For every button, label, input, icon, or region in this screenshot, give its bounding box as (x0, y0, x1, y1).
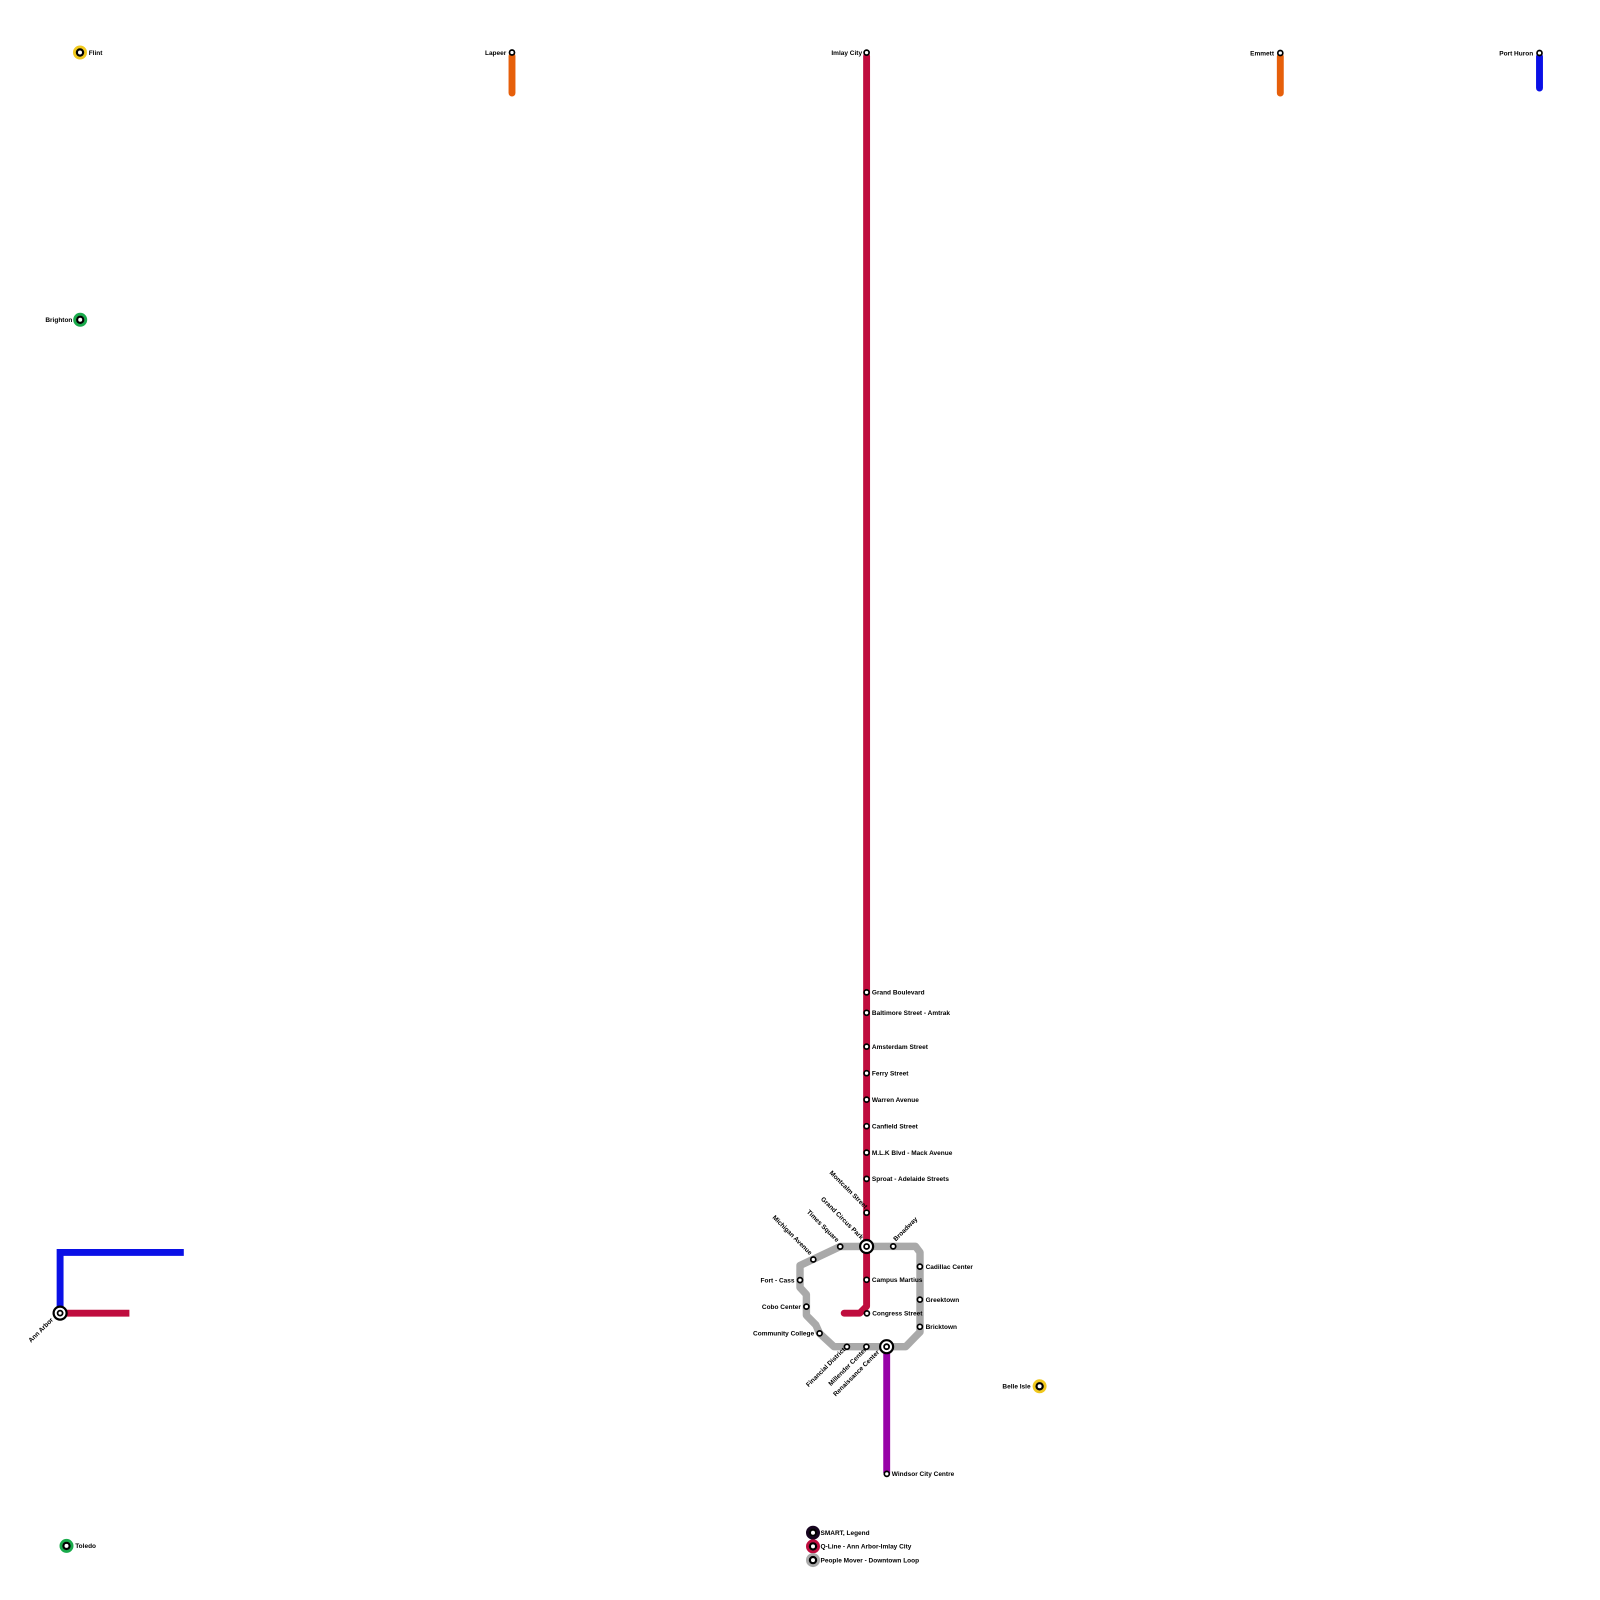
svg-text:Imlay City: Imlay City (831, 50, 862, 57)
station Bricktown (917, 1324, 922, 1329)
interchange Ann Arbor (54, 1307, 67, 1320)
svg-text:Sproat - Adelaide Streets: Sproat - Adelaide Streets (872, 1176, 949, 1183)
svg-text:Bricktown: Bricktown (926, 1324, 957, 1331)
svg-text:Cadillac Center: Cadillac Center (926, 1264, 974, 1271)
station Times Square (838, 1244, 843, 1249)
station Cadillac Center (917, 1264, 922, 1269)
station Greektown (917, 1297, 922, 1302)
svg-text:Amsterdam Street: Amsterdam Street (872, 1044, 929, 1051)
svg-text:Brighton: Brighton (45, 317, 72, 324)
interchange Grand Circus Park (860, 1240, 873, 1253)
station Ferry Street (864, 1071, 869, 1076)
station Port Huron (1537, 51, 1542, 56)
interchange Renaissance Center (880, 1340, 893, 1353)
svg-text:Congress Street: Congress Street (872, 1311, 923, 1318)
station Community College (817, 1331, 822, 1336)
svg-text:Campus Martius: Campus Martius (872, 1277, 923, 1284)
svg-text:People Mover - Downtown Loop: People Mover - Downtown Loop (821, 1557, 920, 1564)
station Amsterdam Street (864, 1044, 869, 1049)
station Baltimore Street - Amtrak (864, 1010, 869, 1015)
svg-text:M.L.K Blvd - Mack Avenue: M.L.K Blvd - Mack Avenue (872, 1150, 953, 1157)
station Sproat - Adelaide Streets (864, 1176, 869, 1181)
station Emmett (1278, 51, 1283, 56)
People Mover downtown loop (800, 1246, 920, 1346)
terminal Belle Isle (yellow ring) (1034, 1381, 1045, 1392)
station Windsor City Centre (884, 1471, 889, 1476)
svg-text:Community College: Community College (753, 1331, 814, 1338)
station Millender Center (864, 1344, 869, 1349)
legend marker People Mover (gray ring) (808, 1555, 819, 1566)
station Congress Street (864, 1311, 869, 1316)
svg-text:Lapeer: Lapeer (485, 50, 507, 57)
station Campus Martius (864, 1277, 869, 1282)
station Imlay City (864, 50, 869, 55)
station Warren Avenue (864, 1097, 869, 1102)
svg-text:Emmett: Emmett (1250, 50, 1275, 57)
svg-text:Q-Line - Ann Arbor-Imlay City: Q-Line - Ann Arbor-Imlay City (821, 1544, 912, 1551)
station Broadway (891, 1244, 896, 1249)
station MLK Blvd - Mack Avenue (864, 1150, 869, 1155)
station Financial District (844, 1344, 849, 1349)
svg-text:Canfield Street: Canfield Street (872, 1124, 919, 1131)
svg-text:Ferry Street: Ferry Street (872, 1071, 909, 1078)
svg-text:Baltimore Street - Amtrak: Baltimore Street - Amtrak (872, 1010, 951, 1017)
svg-text:Grand Boulevard: Grand Boulevard (872, 990, 925, 997)
svg-text:Greektown: Greektown (926, 1297, 960, 1304)
Port Huron blue stub line (1536, 57, 1543, 89)
station Fort - Cass (798, 1278, 803, 1283)
station Grand Boulevard (864, 990, 869, 995)
terminal Brighton (green ring) (75, 314, 86, 325)
terminal Flint (yellow ring) (75, 47, 86, 58)
svg-text:Belle Isle: Belle Isle (1002, 1384, 1031, 1391)
station Montcalm Street (864, 1210, 869, 1215)
svg-text:Flint: Flint (89, 50, 104, 57)
station Michigan Avenue (811, 1257, 816, 1262)
svg-text:Port Huron: Port Huron (1499, 50, 1533, 57)
svg-text:Toledo: Toledo (75, 1543, 96, 1550)
svg-text:Cobo Center: Cobo Center (762, 1304, 801, 1311)
svg-text:Fort - Cass: Fort - Cass (761, 1277, 795, 1284)
Ann Arbor blue line (60, 1252, 184, 1313)
svg-text:SMART, Legend: SMART, Legend (821, 1530, 870, 1537)
legend marker Q-Line (crimson ring) (808, 1541, 819, 1552)
Q-Line main trunk (Imlay City to Congress Street) (844, 56, 866, 1313)
Ann Arbor crimson stub (60, 1310, 129, 1317)
svg-text:Warren Avenue: Warren Avenue (872, 1097, 919, 1104)
Windsor purple line (883, 1347, 890, 1473)
terminal Toledo (green ring) (61, 1540, 72, 1551)
svg-text:Windsor City Centre: Windsor City Centre (892, 1471, 955, 1478)
station Lapeer (510, 50, 515, 55)
legend marker SMART (black ring) (808, 1527, 819, 1538)
station Canfield Street (864, 1124, 869, 1129)
Lapeer orange stub line (509, 56, 516, 93)
station Cobo Center (804, 1304, 809, 1309)
Emmett orange stub line (1277, 57, 1284, 94)
